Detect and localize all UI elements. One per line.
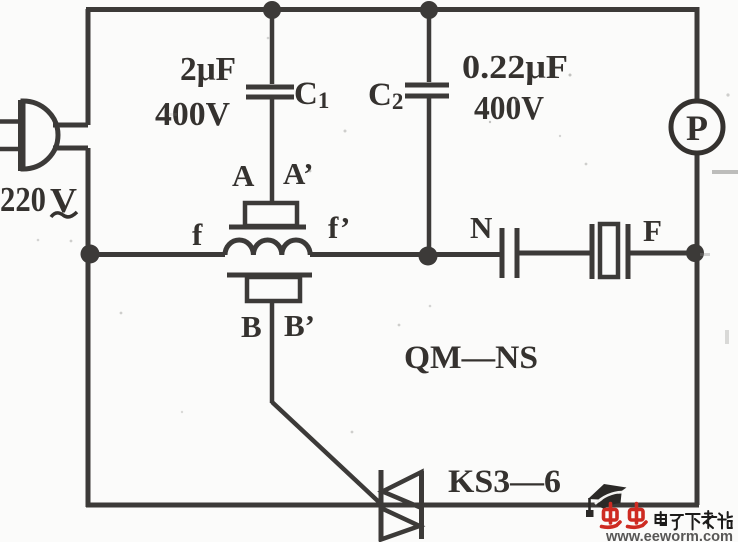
svg-text:A: A <box>232 158 255 193</box>
meter P circle <box>671 101 723 153</box>
svg-text:f: f <box>192 217 203 252</box>
transducer upper plate <box>229 225 306 230</box>
wire plug upper lead <box>53 123 88 128</box>
svg-text:A’: A’ <box>283 156 313 191</box>
crystal F left plate <box>590 224 595 279</box>
svg-text:2μF: 2μF <box>180 51 236 88</box>
triac KS3-6 right bar <box>419 471 424 539</box>
wire B lead down <box>270 301 275 403</box>
inductor winding f-f' <box>225 240 310 255</box>
wire C1 bottom lead to transducer <box>270 99 275 203</box>
label 220V tilde <box>51 212 77 217</box>
triac lower triangle <box>381 508 420 540</box>
wire mid rail N to F <box>517 251 590 256</box>
wire right rail <box>695 7 700 505</box>
node left mid junction <box>81 245 100 264</box>
capacitor C2 plates <box>405 85 449 96</box>
svg-text:B’: B’ <box>284 308 315 343</box>
wire bottom rail <box>86 503 699 508</box>
wire gate diagonal lead <box>272 402 381 504</box>
wire mid rail F to right <box>630 251 697 256</box>
scan noise specks <box>37 37 738 434</box>
wire plug lower lead <box>53 146 88 151</box>
svg-text:f’: f’ <box>328 210 350 245</box>
wire mid rail center <box>310 252 500 257</box>
svg-text:B: B <box>241 309 262 344</box>
plug P1 220V <box>0 100 58 171</box>
svg-text:www.eeworm.com: www.eeworm.com <box>605 528 733 542</box>
wire C1 top lead <box>270 12 275 84</box>
svg-text:C1: C1 <box>294 76 329 113</box>
wire mid rail left <box>88 252 225 257</box>
wire C2 bottom lead <box>427 98 432 252</box>
node C2 mid junction <box>419 247 438 266</box>
capacitor N plates <box>502 228 517 278</box>
watermark chongchong red characters <box>602 504 647 528</box>
svg-text:F: F <box>643 213 662 248</box>
transducer upper electrode box A-A' <box>245 203 297 226</box>
svg-text:KS3—6: KS3—6 <box>448 464 561 500</box>
triac KS3-6 left bar <box>379 470 384 541</box>
node right mid junction <box>686 244 704 262</box>
crystal F right plate <box>626 224 631 279</box>
svg-text:400V: 400V <box>155 96 230 133</box>
watermark graduation cap <box>586 484 627 517</box>
transducer lower electrode box B-B' <box>247 277 300 301</box>
node top C2 junction <box>420 1 438 19</box>
svg-text:220: 220 <box>0 180 46 219</box>
crystal F body rect <box>600 224 618 277</box>
capacitor C1 plates <box>246 87 294 97</box>
svg-text:0.22μF: 0.22μF <box>462 49 568 86</box>
svg-text:C2: C2 <box>368 77 403 114</box>
node top C1 junction <box>263 1 281 19</box>
watermark text dianzi xiazaizhan <box>656 511 732 530</box>
svg-text:N: N <box>470 210 492 245</box>
wire left rail upper <box>86 9 91 125</box>
wire left rail lower <box>86 148 91 507</box>
svg-text:QM—NS: QM—NS <box>404 340 538 376</box>
transducer lower plate <box>227 273 312 278</box>
svg-text:P: P <box>686 108 708 148</box>
svg-text:400V: 400V <box>474 90 544 127</box>
wire C2 top lead <box>427 12 432 82</box>
wire top rail <box>86 7 699 12</box>
triac upper triangle <box>383 472 422 508</box>
